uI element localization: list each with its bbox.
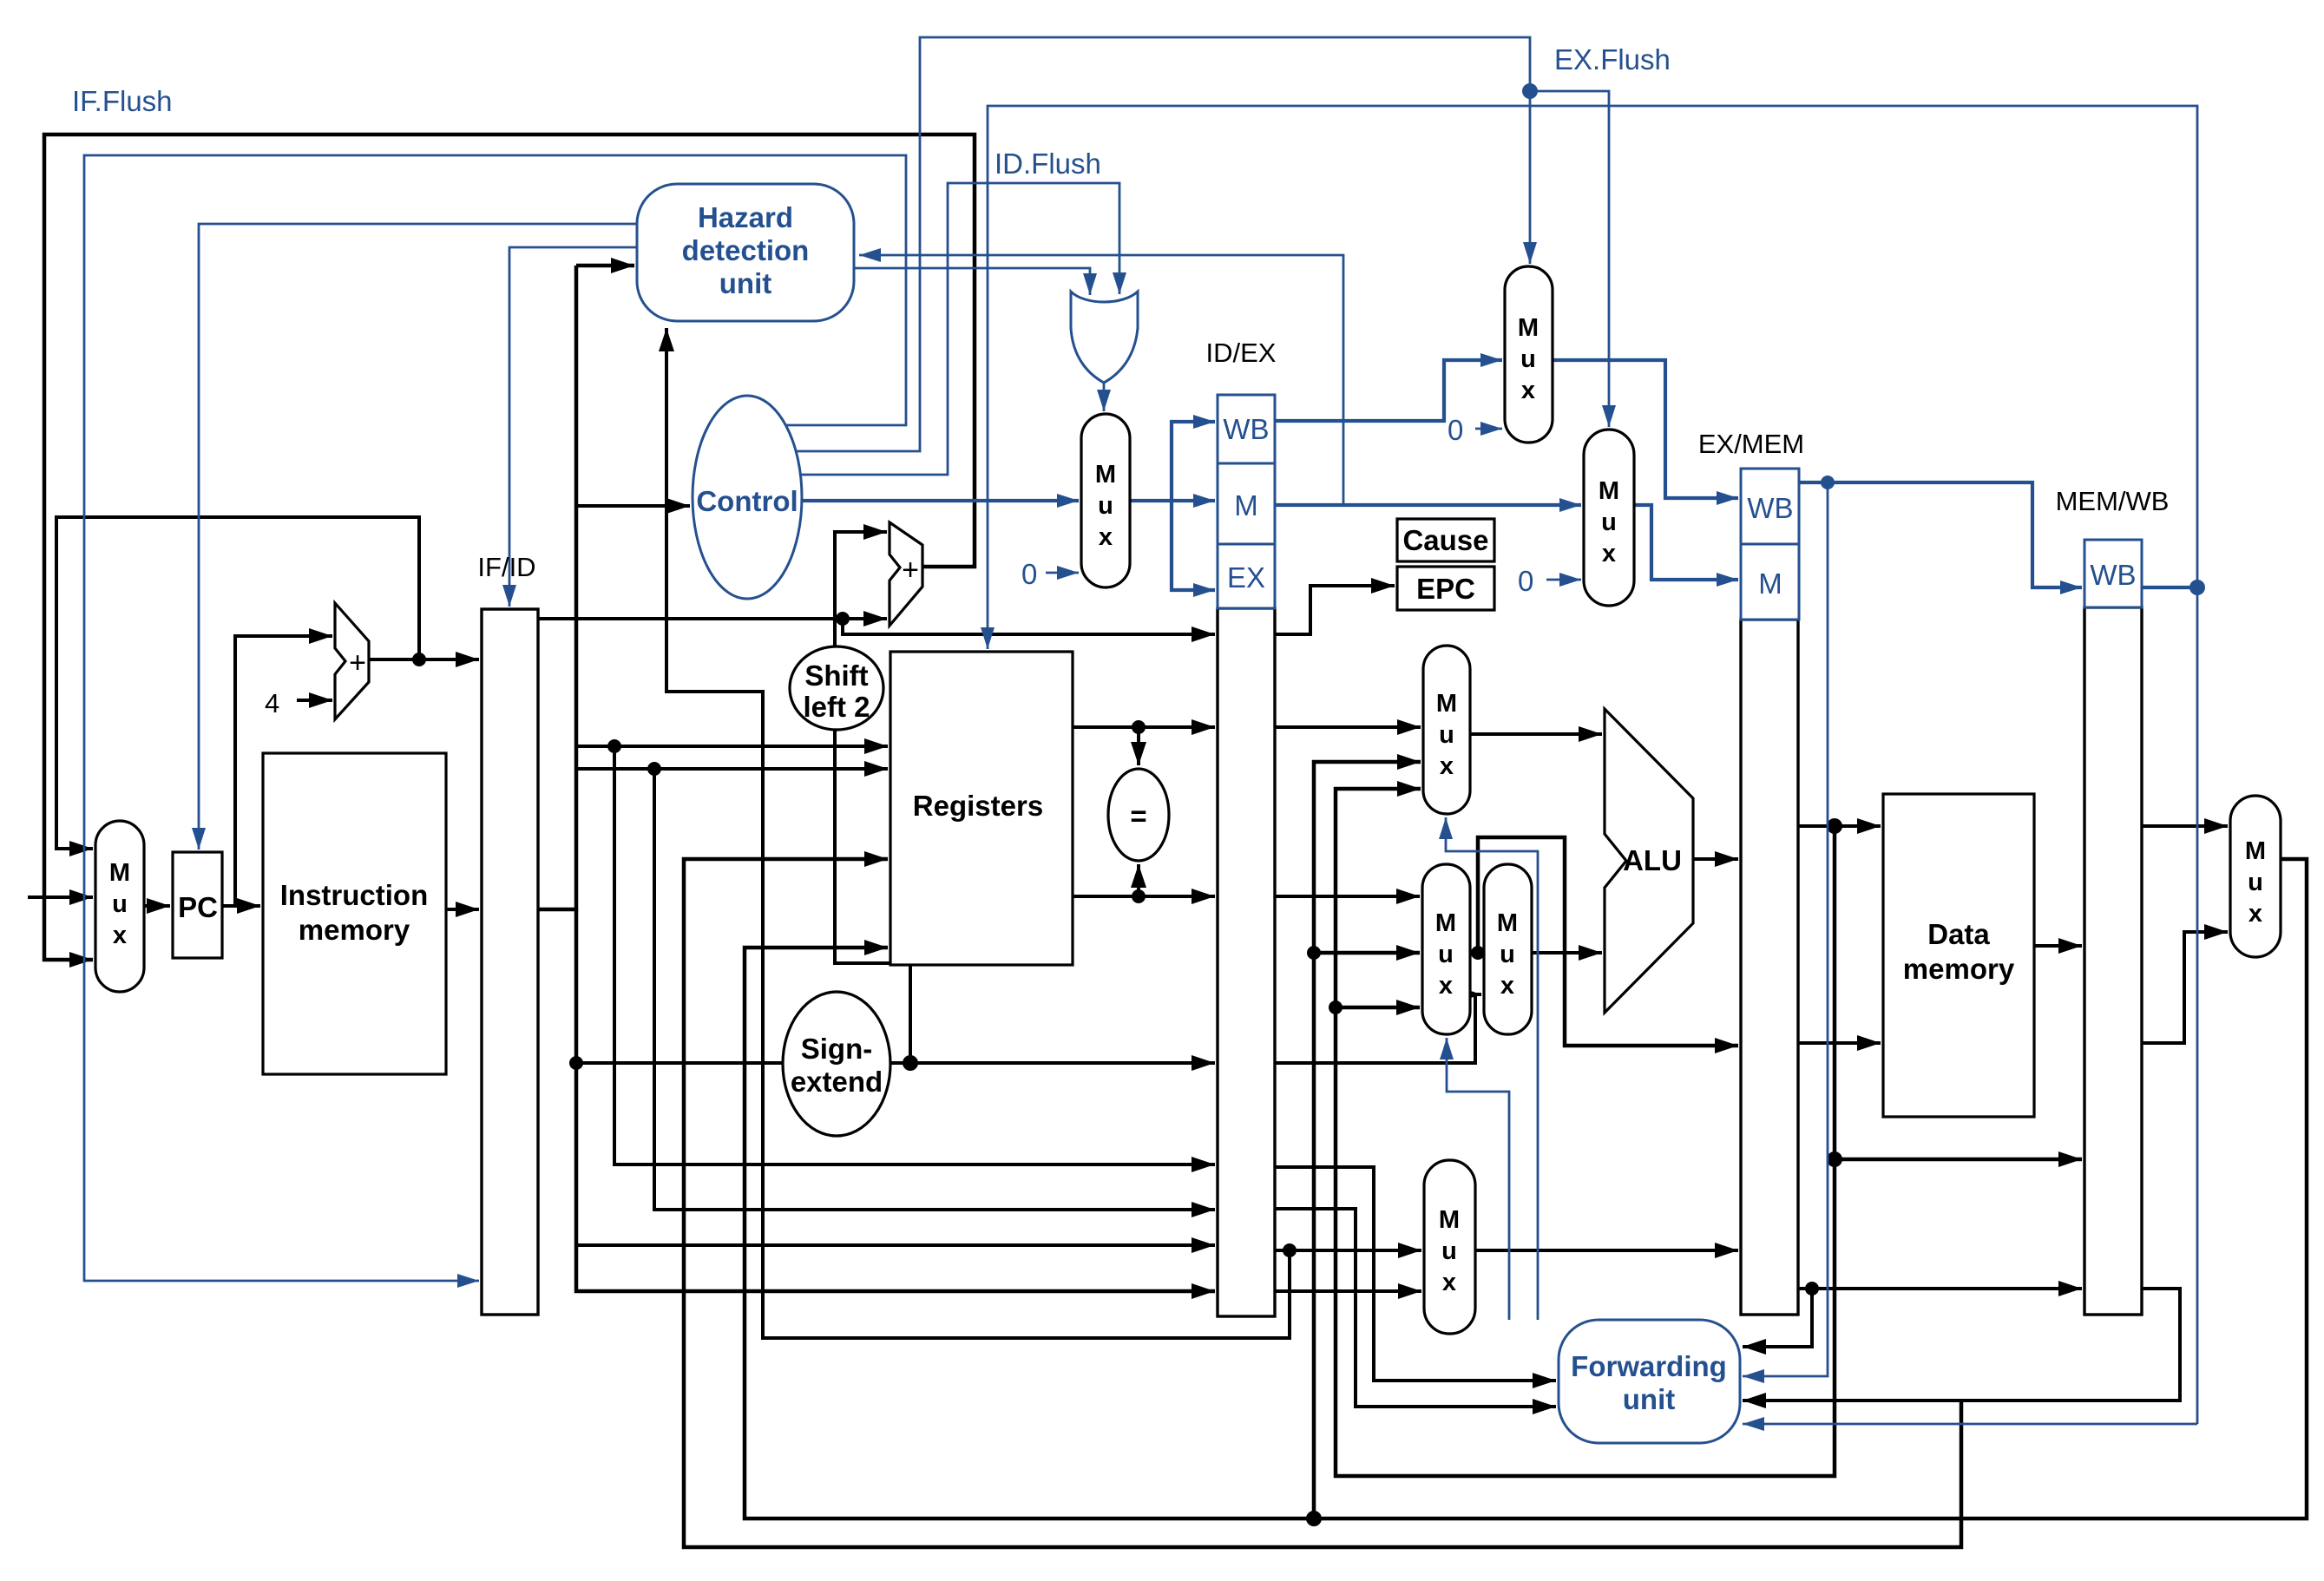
svg-text:Hazard: Hazard — [698, 201, 793, 233]
wire Control output to zero mux — [802, 499, 1079, 502]
wire flush mux F1 output to EX/MEM WB — [1553, 360, 1738, 498]
svg-text:+: + — [902, 554, 919, 587]
svg-text:Control: Control — [696, 485, 798, 517]
wire read data 2 into equality comparator — [1137, 864, 1140, 896]
junction dot PC+4 — [412, 653, 426, 666]
wire hazard unit output to OR gate — [854, 268, 1090, 295]
svg-text:M: M — [1518, 314, 1539, 342]
ID/EX M box — [1218, 463, 1275, 544]
wire ALUSrc mux output to ALU — [1532, 951, 1602, 955]
svg-text:M: M — [1435, 909, 1456, 937]
wire data memory read data to MEM/WB — [2034, 944, 2082, 948]
pipeline register ID/EX black column — [1218, 608, 1275, 1316]
adder A2 branch target — [890, 522, 922, 626]
mux M4 flush M — [1584, 430, 1634, 606]
alu U1 — [1605, 709, 1693, 1013]
svg-text:EPC: EPC — [1416, 573, 1475, 605]
svg-text:Data: Data — [1927, 918, 1990, 950]
mux M2 control zero mux — [1081, 414, 1130, 587]
svg-text:IF/ID: IF/ID — [477, 552, 535, 582]
mux M5 ForwardA — [1423, 646, 1470, 814]
svg-text:Shift: Shift — [804, 659, 868, 692]
wire branch target loop: adder2 out to PC mux input 3 — [44, 134, 975, 960]
svg-text:0: 0 — [1021, 558, 1037, 590]
junction dot read data 2 — [1132, 889, 1146, 903]
wire instruction memory output to IF/ID — [446, 908, 479, 911]
pipeline register IF/ID — [482, 609, 538, 1315]
svg-text:M: M — [1758, 567, 1782, 600]
wire EX/MEM B value to data memory write data — [1798, 1041, 1881, 1045]
wire Rs down to ID/EX — [614, 746, 1215, 1164]
mux M9 writeback — [2230, 796, 2281, 957]
wire B value bypass loop to EX/MEM — [1478, 837, 1738, 1046]
hazard detection unit — [637, 184, 854, 321]
adder A1 PC+4 — [335, 603, 369, 719]
wire ID/EX read data 1 to ForwardA mux — [1275, 725, 1421, 729]
wire registers read data 1 to ID/EX — [1073, 725, 1215, 729]
wire ID/EX PC value to EPC — [1275, 586, 1395, 634]
register EPC — [1397, 567, 1494, 610]
sign-extend — [783, 992, 890, 1136]
junction dot EX/MEM forward to ForwardB — [1329, 1000, 1343, 1014]
register PC — [173, 852, 222, 958]
svg-text:IF.Flush: IF.Flush — [72, 85, 173, 117]
wire MEM/WB ALU value to WB mux — [2142, 932, 2228, 1043]
mux M1 PC source — [95, 821, 144, 992]
register Cause — [1397, 519, 1494, 561]
mux M3 flush WB — [1505, 266, 1553, 443]
wire ID/EX Rt to write register mux — [1275, 1249, 1421, 1252]
svg-text:WB: WB — [2090, 559, 2136, 591]
svg-text:x: x — [113, 922, 127, 949]
svg-text:left 2: left 2 — [803, 691, 870, 723]
junction dot ID/EX Rt — [1283, 1243, 1297, 1257]
svg-text:=: = — [1130, 800, 1146, 832]
wire MEM/WB WB output — [2142, 586, 2197, 589]
wire zero constant into flush mux F2 — [1546, 579, 1581, 581]
svg-text:Registers: Registers — [913, 790, 1043, 822]
wire hazard unit PCWrite to PC — [199, 224, 637, 850]
svg-text:x: x — [1500, 972, 1514, 1000]
svg-text:Forwarding: Forwarding — [1571, 1350, 1727, 1382]
wire ID/EX Rd to write register mux — [1275, 1289, 1421, 1293]
wire sign-extend output to ID/EX — [891, 1061, 1215, 1065]
junction dot Rt — [647, 762, 661, 776]
svg-text:Sign-: Sign- — [801, 1033, 872, 1065]
junction dot MEM/WB forward bottom — [1306, 1511, 1322, 1526]
wire MEM/WB Rd loop to registers write register — [684, 859, 1961, 1547]
svg-text:EX: EX — [1227, 561, 1265, 594]
svg-text:M: M — [1497, 909, 1518, 937]
wire instruction to Control — [576, 504, 690, 508]
EX/MEM WB box — [1741, 469, 1799, 544]
svg-text:Instruction: Instruction — [280, 879, 429, 911]
svg-text:M: M — [109, 859, 130, 887]
wire MEM/WB Rd to forwarding unit — [1743, 1289, 2180, 1401]
wire EX/MEM Rd down to forwarding unit — [1743, 1289, 1812, 1347]
control unit — [693, 396, 802, 599]
wire IF/ID PC+4 to branch adder2 — [538, 617, 887, 620]
wire EX.Flush net — [791, 37, 1609, 451]
mux M7 ALUSrc — [1484, 864, 1532, 1034]
svg-text:M: M — [1599, 477, 1619, 505]
junction dot PC+4 to ID/EX — [836, 612, 850, 626]
junction dot ForwardB output — [1471, 946, 1485, 960]
wire read data 1 into equality comparator — [1137, 727, 1140, 765]
svg-text:x: x — [1099, 523, 1113, 551]
junction dot read data 1 — [1132, 720, 1146, 734]
wire adder1 output PC+4 to IF/ID — [369, 658, 479, 661]
svg-text:EX.Flush: EX.Flush — [1554, 43, 1671, 75]
svg-text:u: u — [2248, 869, 2263, 896]
mux M6 ForwardB — [1422, 864, 1470, 1034]
wire PC mux output to PC — [144, 904, 170, 908]
equality comparator — [1108, 769, 1169, 861]
svg-text:u: u — [1441, 1237, 1457, 1265]
wire WB mux output loop to registers write data — [745, 859, 2307, 1519]
wire IF.Flush net — [84, 155, 906, 1281]
registers — [890, 652, 1073, 965]
ID/EX WB box — [1218, 395, 1275, 463]
wire MEM/WB RegWrite loop to registers and forwarding unit — [988, 106, 2197, 1424]
svg-text:0: 0 — [1448, 414, 1463, 446]
wire shift left 2 output to adder2 — [835, 532, 887, 646]
svg-text:memory: memory — [1903, 953, 2015, 985]
svg-text:WB: WB — [1747, 492, 1793, 524]
wire Rt down to ID/EX — [654, 769, 1215, 1210]
junction dot MEM/WB forward to ForwardB — [1307, 946, 1321, 960]
svg-text:u: u — [1601, 508, 1617, 536]
svg-text:x: x — [1439, 972, 1453, 1000]
junction dot MEM/WB WB — [2189, 580, 2205, 595]
junction dot sign-extend input — [569, 1056, 583, 1070]
svg-text:u: u — [1520, 345, 1536, 373]
svg-text:unit: unit — [719, 267, 771, 299]
wire sign-extend output up to shift left 2 — [835, 730, 910, 1063]
svg-text:0: 0 — [1518, 565, 1533, 597]
wire instruction Rd field to ID/EX — [576, 1243, 1215, 1247]
svg-text:x: x — [1440, 752, 1454, 780]
wire write register mux output to EX/MEM — [1475, 1249, 1738, 1252]
or gate — [1071, 292, 1138, 383]
wire zero constant into zero mux — [1046, 572, 1079, 574]
wire ID/EX Rs to forwarding unit — [1275, 1167, 1556, 1381]
junction dot EX/MEM WB control — [1821, 476, 1835, 489]
svg-text:M: M — [1439, 1206, 1460, 1234]
wire read register 2 — [576, 767, 888, 771]
wire flush mux F2 output to EX/MEM M — [1634, 505, 1738, 580]
svg-text:x: x — [2249, 900, 2262, 928]
ID/EX EX box — [1218, 544, 1275, 608]
pipeline register EX/MEM black column — [1741, 620, 1798, 1315]
junction dot ALU result at memory — [1827, 818, 1842, 834]
instruction memory — [263, 753, 446, 1074]
svg-text:x: x — [1521, 377, 1535, 404]
svg-text:M: M — [1234, 489, 1258, 522]
wire ForwardB control — [1447, 1038, 1509, 1320]
wire ID/EX WB to flush mux F1 — [1275, 360, 1502, 421]
MEM/WB WB box — [2084, 540, 2142, 607]
wire constant 4 into adder1 — [297, 699, 332, 702]
wire ID.Flush net — [800, 183, 1119, 475]
junction dot sign-extend output — [903, 1055, 918, 1071]
wire hazard unit IF/ID write — [509, 247, 637, 607]
wire ALU result to EX/MEM — [1693, 857, 1738, 861]
svg-text:Cause: Cause — [1402, 524, 1488, 556]
junction dot EX.Flush — [1522, 83, 1538, 99]
svg-text:u: u — [112, 890, 128, 918]
wire ID/EX MemRead to hazard detection unit — [859, 255, 1343, 505]
svg-text:u: u — [1438, 941, 1454, 968]
svg-text:detection: detection — [682, 234, 810, 266]
wire PC output to instruction memory — [222, 904, 260, 908]
wire PC+4 branch down to ID/EX (EPC value) — [843, 619, 1215, 634]
svg-text:+: + — [349, 646, 366, 679]
svg-text:ALU: ALU — [1623, 844, 1682, 876]
svg-text:u: u — [1439, 721, 1454, 749]
wire ID/EX M to flush mux F2 — [1275, 503, 1581, 507]
wire instruction bus vertical — [538, 266, 1215, 1291]
svg-text:u: u — [1098, 492, 1113, 520]
svg-text:M: M — [1095, 461, 1116, 489]
svg-text:M: M — [2245, 837, 2266, 865]
wire ForwardB mux output to ALUSrc mux — [1470, 951, 1481, 955]
svg-text:MEM/WB: MEM/WB — [2056, 486, 2170, 516]
svg-text:x: x — [1602, 540, 1616, 567]
svg-text:u: u — [1500, 941, 1515, 968]
junction dot Rs — [607, 739, 621, 753]
svg-text:ID/EX: ID/EX — [1206, 338, 1277, 368]
svg-text:extend: extend — [791, 1066, 883, 1098]
svg-text:ID.Flush: ID.Flush — [995, 148, 1101, 180]
svg-text:M: M — [1436, 690, 1457, 718]
wire ID/EX Rt to forwarding unit — [1275, 1209, 1556, 1407]
wire EX/MEM ALU result to data memory address — [1798, 824, 1881, 828]
wire EX/MEM RegWrite down to forwarding unit — [1743, 482, 1828, 1376]
wire ID/EX immediate to ALUSrc mux — [1275, 994, 1481, 1063]
junction dot ALU result to MEM/WB — [1827, 1151, 1842, 1167]
svg-text:unit: unit — [1623, 1383, 1675, 1415]
svg-text:memory: memory — [299, 914, 410, 946]
svg-text:4: 4 — [265, 688, 279, 718]
wire ALU result forward vertical and to MEM/WB — [1336, 789, 2082, 1476]
svg-text:PC: PC — [178, 891, 218, 923]
EX/MEM M box — [1741, 544, 1799, 620]
wire ID/EX read data 2 to ForwardB mux — [1275, 895, 1420, 898]
junction dot EX/MEM Rd — [1805, 1282, 1819, 1296]
wire PC+4 loop back to PC mux input 1 — [56, 517, 419, 849]
wire MEM/WB data to WB mux — [2142, 824, 2228, 828]
wire exception vector stub into PC mux — [28, 895, 93, 899]
svg-text:x: x — [1442, 1269, 1456, 1296]
forwarding unit — [1559, 1320, 1740, 1443]
pipeline register MEM/WB black column — [2084, 607, 2142, 1315]
shift left 2 — [790, 646, 883, 730]
wire EX/MEM WB to MEM/WB WB — [1799, 482, 2082, 587]
wire PC value up to adder1 — [235, 636, 332, 906]
wire OR gate output to zero mux — [1103, 382, 1106, 411]
svg-text:EX/MEM: EX/MEM — [1698, 429, 1804, 459]
wire zero constant into flush mux F1 — [1475, 428, 1502, 430]
svg-text:WB: WB — [1223, 413, 1269, 445]
wire MEM/WB forward value up to forward muxes — [1314, 762, 1421, 1519]
data memory — [1883, 794, 2034, 1117]
wire read register 1 — [576, 745, 888, 748]
wire ID/EX Rt back to hazard detection unit — [666, 328, 1290, 1338]
wire EX/MEM Rd to MEM/WB — [1798, 1287, 2082, 1290]
mux M8 write register — [1424, 1160, 1475, 1334]
wire ForwardA control — [1446, 817, 1538, 1320]
wire instruction to sign-extend — [576, 1061, 783, 1065]
wire ForwardA mux output to ALU — [1470, 732, 1602, 736]
wire registers read data 2 to ID/EX — [1073, 895, 1215, 898]
wire zero mux output to ID/EX WB M EX — [1130, 422, 1215, 590]
